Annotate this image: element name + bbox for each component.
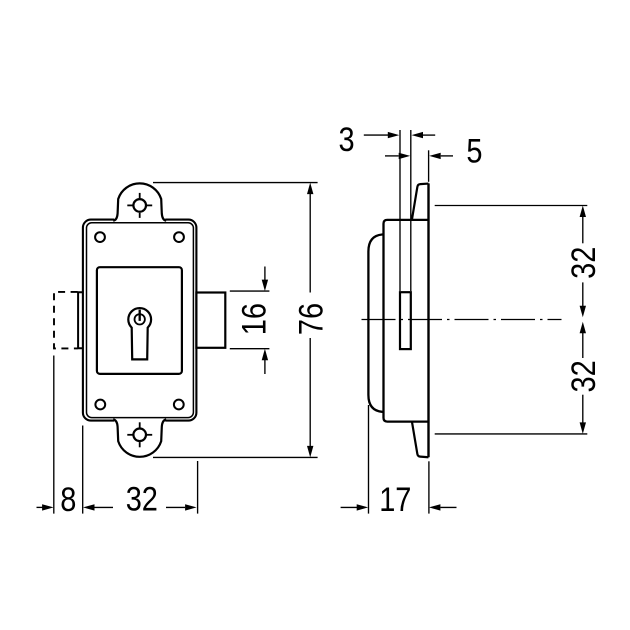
side view: plate extension line B xyxy=(410,130,412,291)
dimension 3: left arrow xyxy=(364,132,400,138)
top ear hole xyxy=(133,199,146,212)
svg-text:3: 3 xyxy=(339,119,355,158)
dimension 32: right arrow xyxy=(166,504,197,510)
dimension 76: bottom extension line xyxy=(153,456,318,458)
svg-text:8: 8 xyxy=(60,480,76,519)
dimension 16: top extension line xyxy=(230,290,270,292)
top ear hole crosshair xyxy=(127,193,152,218)
bolt extended right xyxy=(196,293,225,348)
svg-text:5: 5 xyxy=(466,131,482,170)
svg-text:16: 16 xyxy=(234,303,273,335)
front view: bottom mounting ear dome xyxy=(113,420,166,457)
keyhole inner circle xyxy=(135,314,145,324)
svg-text:17: 17 xyxy=(379,480,411,519)
keyhole outline xyxy=(128,308,151,359)
screw hole top-left xyxy=(95,232,105,242)
side view: tab tip extension line xyxy=(428,150,430,182)
bottom ear hole xyxy=(133,429,146,442)
front view: outer plate rounded rectangle xyxy=(83,220,196,421)
side view: keyhole slot xyxy=(400,292,411,349)
dimension 32: body right extension line xyxy=(197,461,199,514)
white patch under top ear xyxy=(114,216,165,224)
dimension 16: bottom arrow xyxy=(262,349,268,374)
dimension 32/32 right: bottom extension line xyxy=(435,433,588,435)
dimension 76: line and arrows xyxy=(307,183,313,458)
bottom ear hole crosshair xyxy=(127,422,152,447)
front view: top mounting ear dome xyxy=(113,183,166,220)
dimension 32/32 right: top extension line xyxy=(435,205,588,207)
side view: case outline xyxy=(384,220,429,422)
dimension 32: left arrow xyxy=(83,504,113,510)
centerline dash-dot xyxy=(362,319,562,321)
svg-text:32: 32 xyxy=(563,247,602,279)
screw hole top-right xyxy=(174,232,184,242)
screw hole bottom-left xyxy=(95,400,105,410)
side view: plate extension line A xyxy=(399,130,401,291)
dimension 5: left arrow xyxy=(385,153,410,159)
dimension 3: right arrow xyxy=(412,132,436,138)
dimension 5: right arrow xyxy=(429,153,453,159)
bolt stub left xyxy=(78,292,83,348)
dimension 17: right extension line xyxy=(428,461,430,513)
svg-text:76: 76 xyxy=(291,303,330,335)
dimension 16: bottom extension line xyxy=(230,348,270,350)
dimension 8: left outside arrow xyxy=(37,504,54,510)
dimension 16: top arrow xyxy=(262,267,268,292)
dimension 32 bottom: line and arrows xyxy=(580,322,586,434)
keyhole pin xyxy=(139,310,141,321)
dimension 17: right outside arrow xyxy=(429,504,457,510)
bolt thrown position dashed xyxy=(54,292,78,349)
dimension 8/32: body left extension line xyxy=(82,426,84,514)
front view: inner plate line xyxy=(87,223,194,418)
dimension 76: top extension line xyxy=(153,182,318,184)
front view: lock case rectangle xyxy=(97,267,182,374)
dimension 17: left outside arrow xyxy=(341,504,369,510)
white patch under bottom ear xyxy=(114,417,165,425)
dimension 32 top: line and arrows xyxy=(580,206,586,318)
side view: rounded cover bulge xyxy=(368,234,383,412)
svg-text:32: 32 xyxy=(126,479,158,518)
svg-text:32: 32 xyxy=(563,360,602,392)
side view: bottom tab xyxy=(412,421,429,457)
screw hole bottom-right xyxy=(174,400,184,410)
dimension 8/32: left extension line (dashed bolt) xyxy=(53,356,55,514)
side view: top tab xyxy=(412,184,429,220)
side view: front face line xyxy=(427,183,429,457)
dimension 17: left extension line xyxy=(368,405,370,514)
